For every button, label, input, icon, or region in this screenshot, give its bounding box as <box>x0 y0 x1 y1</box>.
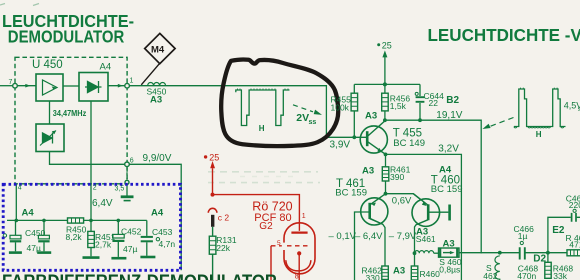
capacitor C644 <box>415 92 424 101</box>
junction C644/19,1V rail <box>418 118 422 122</box>
R462 lead bottom <box>384 279 386 280</box>
T460 collector down <box>415 220 428 253</box>
delay line S460 <box>439 248 460 257</box>
resistor R455 <box>351 93 358 111</box>
grid lead down <box>270 246 272 280</box>
svg-text:BC 149: BC 149 <box>393 138 425 149</box>
envelope <box>284 223 315 274</box>
pin terminal 1 <box>125 83 130 88</box>
svg-text:9,9/0V: 9,9/0V <box>143 153 172 164</box>
svg-text:DEMODULATOR: DEMODULATOR <box>8 27 125 47</box>
connector c2 arc <box>208 208 217 213</box>
19.1V rail and long down line <box>385 120 481 253</box>
svg-text:R460: R460 <box>420 269 441 279</box>
T460 base lead and end bar <box>430 211 449 213</box>
svg-text:5: 5 <box>277 240 281 247</box>
svg-text:FARBDIFFERENZ-DEMODULATOR: FARBDIFFERENZ-DEMODULATOR <box>2 271 277 280</box>
junction R461/0,6V rail <box>384 192 388 196</box>
svg-text:A3: A3 <box>362 165 374 176</box>
svg-text:33k: 33k <box>553 271 567 280</box>
svg-text:H: H <box>536 130 542 139</box>
svg-text:A3: A3 <box>365 110 377 121</box>
delayed output wire <box>459 252 567 254</box>
3.2V rail and long down line <box>386 154 462 280</box>
wire diode block to pin 1 with arrow <box>108 85 125 87</box>
R456 leads <box>384 84 386 120</box>
wire input left edge to pin 7 <box>0 85 13 87</box>
svg-text:– 6,4V: – 6,4V <box>355 231 383 242</box>
svg-text:A4: A4 <box>151 207 164 218</box>
+25 feed top <box>384 57 386 84</box>
svg-text:470n: 470n <box>517 271 536 280</box>
resistor R451 <box>83 220 100 257</box>
svg-text:8,2k: 8,2k <box>66 232 83 242</box>
svg-text:U 450: U 450 <box>32 59 63 71</box>
green wire to R131 and down <box>209 227 216 280</box>
transistor T455 <box>360 121 387 154</box>
svg-text:390: 390 <box>390 172 404 182</box>
envelope gap where grid enters <box>282 243 286 250</box>
amp block U450a <box>36 74 63 101</box>
cathode cup <box>286 260 311 271</box>
svg-text:4,7n: 4,7n <box>159 239 176 249</box>
svg-text:3,2V: 3,2V <box>438 144 459 155</box>
svg-text:34,47MHz: 34,47MHz <box>53 108 87 118</box>
C467 branch up and right <box>548 217 580 252</box>
svg-text:47µ: 47µ <box>27 243 41 253</box>
faint bleed-through dashes <box>208 172 320 183</box>
waveform 2 (top right) <box>514 88 565 128</box>
junction C450/rail <box>42 219 46 223</box>
resistor R450 horizontal <box>68 218 84 223</box>
pin terminal 6 <box>125 162 130 167</box>
wire diode block bottom down to rail (pin 2) <box>90 101 92 220</box>
svg-text:C452: C452 <box>121 226 142 236</box>
resistor R456 <box>382 93 389 111</box>
svg-text:462: 462 <box>483 271 497 280</box>
svg-text:A4: A4 <box>22 207 35 218</box>
red +25 wedge and dot <box>210 161 215 168</box>
C644 leads <box>419 84 421 120</box>
resistor R460 <box>411 266 418 280</box>
junction R455/T455 base <box>352 135 356 139</box>
svg-text:220: 220 <box>569 200 580 210</box>
svg-text:8: 8 <box>295 273 299 280</box>
svg-text:22: 22 <box>429 98 439 108</box>
output arrowhead <box>118 84 123 88</box>
svg-text:BC 159: BC 159 <box>335 188 367 199</box>
svg-text:6: 6 <box>130 158 134 165</box>
coil S450 on main wire <box>148 83 166 86</box>
resistor R461 <box>382 167 389 181</box>
svg-text:M4: M4 <box>151 45 165 56</box>
svg-text:2: 2 <box>93 185 97 192</box>
svg-text:100k: 100k <box>331 102 350 112</box>
junction T460 collector/S461 <box>413 251 417 255</box>
svg-text:25: 25 <box>209 152 219 162</box>
svg-text:A3: A3 <box>443 238 455 249</box>
cathode dot and lead <box>297 251 301 255</box>
svg-text:R462: R462 <box>362 265 383 275</box>
svg-text:2,7k: 2,7k <box>95 240 112 250</box>
junction +25 top rail <box>383 82 387 86</box>
svg-text:H: H <box>259 124 265 133</box>
dashed arrow to 19,1V line <box>482 118 513 130</box>
svg-text:22k: 22k <box>216 243 230 253</box>
svg-text:– 0,1V: – 0,1V <box>329 231 357 242</box>
coil S462 <box>495 256 500 280</box>
svg-text:3,9V: 3,9V <box>330 139 351 150</box>
junction D2 node <box>546 251 550 255</box>
wire amp to diode block <box>63 85 79 87</box>
transistor T461 <box>361 194 388 225</box>
svg-text:C453: C453 <box>152 227 173 237</box>
junction C452/rail <box>117 219 121 223</box>
hand-drawn black circle blob <box>221 60 338 147</box>
pin terminal 7 <box>13 83 18 88</box>
capacitor C453 <box>140 220 159 257</box>
red wire down to junction <box>212 168 214 194</box>
capacitor C467 <box>572 213 576 222</box>
capacitor C449 left edge electrolytic <box>3 220 22 252</box>
wire pin6 to 9,9/0V corner down <box>129 164 181 270</box>
svg-text:A3: A3 <box>393 265 405 276</box>
svg-text:1µ: 1µ <box>518 231 528 241</box>
svg-text:1,5k: 1,5k <box>390 101 407 111</box>
red labels <box>218 199 306 280</box>
R461 leads <box>385 154 387 193</box>
svg-text:– 7,9V: – 7,9V <box>389 231 417 242</box>
capacitor C450 electrolytic <box>37 220 51 252</box>
measuring point M4 diamond <box>141 33 175 84</box>
svg-text:47µ: 47µ <box>123 244 137 254</box>
svg-text:A4: A4 <box>100 62 112 73</box>
ground below pin 3,5 <box>121 195 134 198</box>
svg-text:0,6V: 0,6V <box>392 195 412 206</box>
2Vss dashed arrow <box>293 105 322 115</box>
connector c2 black pin <box>211 215 214 227</box>
resistor R462 <box>382 266 389 280</box>
svg-text:C450: C450 <box>25 228 46 238</box>
vacuum tube Rö 720 PCF80 <box>271 223 315 280</box>
R460 lead <box>414 253 416 266</box>
svg-text:A3: A3 <box>150 95 162 106</box>
lower diode box (reference oscillator diode) <box>36 124 64 152</box>
svg-text:2V: 2V <box>296 112 309 124</box>
svg-text:19,1V: 19,1V <box>436 110 462 121</box>
svg-text:471: 471 <box>569 239 580 249</box>
wire pin4 down to rail <box>15 184 17 221</box>
main signal wire to T455 base <box>129 86 366 138</box>
svg-text:1: 1 <box>302 213 306 220</box>
junction T455 emitter/3,2V rail <box>384 153 388 157</box>
input arrowhead <box>25 84 30 88</box>
top rail R455/R456/C644 <box>354 83 420 85</box>
blue dotted selection box <box>3 184 180 270</box>
svg-text:BC 159: BC 159 <box>431 184 463 195</box>
svg-text:B2: B2 <box>446 95 459 106</box>
red wire to tube anode <box>213 195 300 231</box>
R468 lead <box>547 253 549 263</box>
junction pin4/rail <box>14 219 18 223</box>
rail 6.4V <box>7 219 147 221</box>
R455 leads <box>353 84 355 137</box>
red junction dot <box>211 193 215 197</box>
diode block <box>79 73 108 102</box>
red module: +25 tap c2 <box>204 155 299 231</box>
coil S461 <box>415 251 434 254</box>
svg-text:ss: ss <box>309 119 317 126</box>
junction R456/19,1V rail <box>383 118 387 122</box>
anode bar <box>291 232 307 234</box>
T461 base feed from bottom <box>355 212 369 280</box>
svg-text:c 2: c 2 <box>218 212 230 222</box>
capacitor C466 <box>520 247 525 259</box>
svg-text:S461: S461 <box>416 234 436 244</box>
grid dashed <box>271 245 310 247</box>
wire pin7 to amp box with arrow <box>17 85 36 87</box>
faint top-left specks <box>0 4 39 6</box>
junction S462 node <box>498 251 502 255</box>
svg-text:G2: G2 <box>259 221 273 232</box>
S461 coil wire <box>434 252 439 254</box>
svg-text:25: 25 <box>382 40 392 50</box>
svg-text:3,5: 3,5 <box>115 186 125 193</box>
+25 supply tap symbol <box>382 50 387 57</box>
wire lower box down and right to pin 6 <box>50 152 125 165</box>
resistor R469 right edge horizontal <box>567 250 580 256</box>
pin terminal 3,5 <box>125 180 129 184</box>
dashed box U450 <box>15 57 127 184</box>
capacitor C452 electrolytic <box>111 220 126 258</box>
svg-text:0,8µs: 0,8µs <box>439 265 460 275</box>
wire below pin6 to ground <box>126 167 128 180</box>
transistor T460 <box>412 194 440 227</box>
T461 collector down to R462 <box>371 219 386 266</box>
svg-text:7: 7 <box>9 79 13 86</box>
wire amp bottom down to lower diode box <box>49 101 51 124</box>
svg-text:4: 4 <box>18 185 22 192</box>
svg-text:LEUCHTDICHTE -VER: LEUCHTDICHTE -VER <box>428 25 580 45</box>
svg-text:E2: E2 <box>552 225 565 236</box>
resistor R468 <box>545 262 551 278</box>
waveform 1 (inverted, inside hand-drawn circle) <box>236 89 290 126</box>
junction R451/rail <box>89 219 93 223</box>
svg-text:1: 1 <box>130 78 134 85</box>
svg-text:6,4V: 6,4V <box>92 198 113 209</box>
0.6V rail <box>386 194 421 200</box>
